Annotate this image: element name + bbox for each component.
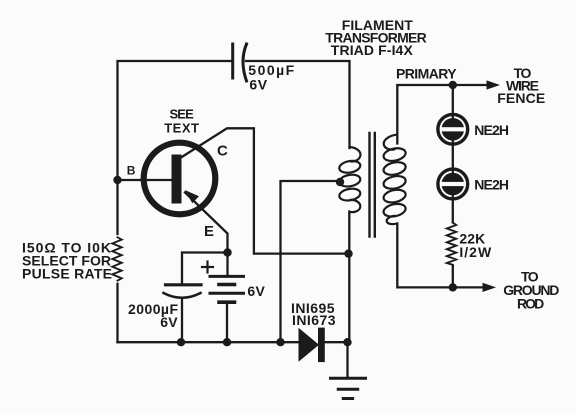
wire primary bottom to ground-rod node [397, 224, 453, 288]
svg-text:FENCE: FENCE [497, 90, 545, 106]
transformer T1 right winding loop 1 [382, 146, 406, 162]
wire diode to ground node [325, 341, 348, 343]
wire 22K to ground-rod node [452, 266, 454, 287]
wire emitter node to 2000uF capacitor [182, 253, 228, 284]
junction dot diode cathode ground node [343, 338, 351, 346]
svg-text:NE2H: NE2H [474, 177, 509, 193]
svg-text:TRIAD F-I4X: TRIAD F-I4X [331, 42, 414, 58]
ground symbol [331, 378, 366, 398]
svg-text:PULSE RATE: PULSE RATE [22, 266, 112, 282]
transformer T1 left winding loop 1 [338, 159, 361, 174]
transformer T1 core lines [368, 133, 370, 237]
capacitor C1 500uF left plate [231, 44, 234, 78]
battery B1 long plate 2 [210, 292, 244, 295]
transformer T1 left winding exit hook [350, 200, 361, 212]
svg-text:6V: 6V [160, 314, 178, 330]
transformer T1 right winding loop 4 [382, 188, 406, 204]
arrowhead to ground rod [483, 283, 497, 292]
wire top rail from capacitor to transformer [246, 61, 350, 148]
junction dot tap wire at bottom rail [276, 338, 284, 346]
wire 2000uF to bottom rail [181, 299, 183, 342]
junction dot winding tap [336, 178, 344, 186]
junction dot 2000uF at bottom rail [177, 338, 185, 346]
svg-text:500µF: 500µF [248, 62, 294, 78]
wire bottom rail left section [118, 341, 300, 343]
junction dot emitter node [223, 248, 231, 256]
wire fence arrow shaft [453, 84, 489, 86]
svg-text:I/2W: I/2W [459, 244, 492, 260]
resistor R2 22K zigzag [447, 223, 456, 265]
svg-text:C: C [217, 143, 228, 160]
wire tap from left winding to bottom rail [281, 181, 341, 342]
junction dot battery at bottom rail [223, 338, 231, 346]
wire ground node down [346, 342, 348, 377]
capacitor C2 2000uF curved bottom plate [164, 293, 201, 298]
battery B1 plus sign [202, 266, 213, 268]
junction dot collector to winding bottom [344, 249, 352, 257]
transformer T1 right winding entry hook [384, 135, 397, 150]
transistor Q1 emitter lead [185, 193, 228, 253]
transformer T1 right winding exit hook [387, 216, 397, 224]
transistor Q1 collector lead and wire to transformer bottom [181, 128, 349, 253]
transistor Q1 base bar [172, 155, 182, 204]
junction dot fence node [449, 81, 457, 89]
battery B1 long plate 1 [210, 275, 244, 278]
wire neon lamp chain [452, 85, 454, 222]
transformer T1 left winding loop 3 [338, 187, 361, 202]
wire battery bottom to ground rail [226, 253, 228, 276]
svg-text:TEXT: TEXT [164, 120, 199, 135]
wire ground-rod arrow shaft [453, 286, 485, 288]
capacitor C1 500uF right curved plate [243, 44, 247, 81]
svg-text:B: B [127, 164, 136, 178]
transistor Q1 emitter arrowhead [185, 190, 199, 203]
resistor R1 150ohm-10K zigzag on left vertical [112, 237, 121, 280]
transformer T1 right winding loop 3 [382, 174, 406, 190]
transformer T1 left winding entry hook [350, 147, 361, 162]
neon lamp NE2H no.2 [438, 169, 468, 199]
capacitor C2 2000uF top plate [166, 283, 202, 286]
transformer T1 right winding loop 5 [382, 202, 406, 218]
svg-text:NE2H: NE2H [474, 122, 509, 138]
junction dot ground-rod node [449, 283, 457, 291]
diode D1 cathode bar [318, 328, 325, 363]
svg-text:6V: 6V [247, 283, 265, 299]
arrowhead to wire fence [487, 80, 501, 89]
transformer T1 left winding loop 2 [338, 173, 361, 188]
svg-text:INI673: INI673 [292, 312, 336, 328]
junction dot node B (base) [113, 176, 121, 184]
battery B1 short plate 2 [219, 300, 235, 304]
wire left winding bottom to collector node [348, 212, 350, 343]
battery B1 short plate 1 [219, 283, 235, 287]
wire primary top to fence node [397, 85, 453, 144]
wire battery to bottom rail [226, 304, 228, 342]
svg-text:PRIMARY: PRIMARY [396, 66, 457, 82]
wire base lead [118, 179, 172, 181]
svg-text:ROD: ROD [517, 296, 544, 312]
wire top rail from left vertical to capacitor [118, 61, 233, 234]
svg-text:E: E [204, 223, 214, 240]
diode D1 1N1695 triangle [299, 328, 320, 362]
neon lamp NE2H no.1 [438, 114, 468, 144]
svg-text:6V: 6V [249, 76, 267, 92]
transformer T1 right winding loop 2 [382, 160, 406, 176]
transistor Q1 circle [144, 143, 216, 215]
wire left vertical below resistor [116, 284, 118, 342]
svg-text:SEE: SEE [169, 106, 194, 121]
